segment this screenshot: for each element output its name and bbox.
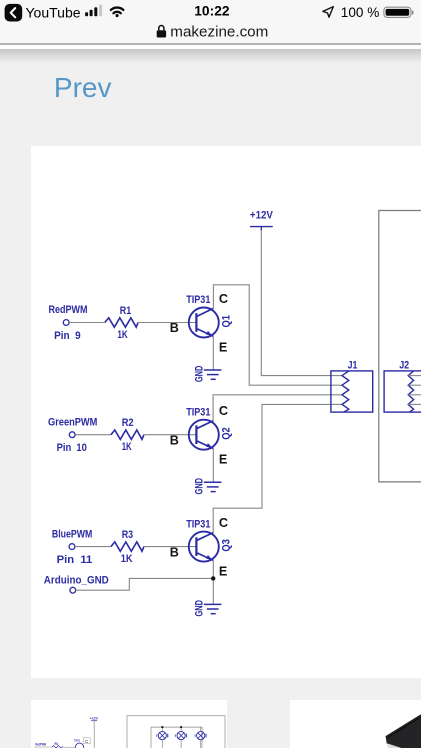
svg-text:Arduino_GND: Arduino_GND [44,575,109,587]
svg-text:RedPWM: RedPWM [35,743,46,747]
bright strip under toolbar [0,45,421,48]
svg-text:GND: GND [194,478,206,495]
svg-text:YouTube: YouTube [26,4,81,20]
thumbnail schematic: +12V pole [90,715,98,748]
svg-text:10:22: 10:22 [194,3,230,18]
svg-text:Q1: Q1 [220,315,232,328]
node RedPWM (input terminal) [49,304,88,342]
svg-text:TIP31: TIP31 [186,518,210,530]
svg-text:Pin 10: Pin 10 [57,442,87,454]
wires J2 pins to right edge [408,376,421,405]
svg-text:E: E [219,565,227,579]
svg-text:BluePWM: BluePWM [52,528,92,540]
photo card [290,700,421,748]
wire emitter of Q2 to ground [212,449,214,483]
status bar: battery icon [384,7,414,17]
node GreenPWM (input terminal) [48,416,97,454]
status bar: location arrow icon [323,7,333,18]
svg-text:Pin 9: Pin 9 [54,330,81,342]
svg-text:C: C [219,292,228,306]
thumbnail schematic: RedPWM input row [34,738,90,748]
wire GreenPWM terminal to resistor R2 [75,434,111,436]
svg-text:TIP31: TIP31 [186,294,210,306]
svg-text:TIP31: TIP31 [186,406,210,418]
status bar: wifi icon [111,8,123,18]
power symbol +12V [250,210,274,231]
thumbnail schematic: LED strip box with three lamps [127,716,225,748]
transistor Q3 TIP31 (NPN) [186,518,232,561]
wire RedPWM terminal to resistor R1 [69,322,105,324]
svg-text:Q3: Q3 [220,539,232,552]
svg-text:Pin 11: Pin 11 [57,554,93,566]
wire Q2 collector to J1 pin 3 [213,395,343,421]
wire resistor R3 to base of Q3 [144,546,197,548]
svg-text:RedPWM: RedPWM [49,304,88,316]
wire emitter of Q1 to ground [212,336,214,370]
connector J1 [331,359,373,412]
wire Q3 collector to J1 pin 4 [213,404,343,532]
toolbar drop shadow [0,49,421,63]
svg-text:C: C [85,739,88,744]
LED strip device box (partially visible, right) [379,211,421,482]
svg-text:J1: J1 [348,359,358,371]
svg-text:R1: R1 [55,742,59,746]
svg-text:makezine.com: makezine.com [170,24,268,40]
svg-text:C: C [219,404,228,418]
wire BluePWM terminal to resistor R3 [75,546,111,548]
svg-text:GND: GND [194,600,206,617]
svg-text:R3: R3 [122,529,133,541]
node Arduino_GND terminal [44,575,109,594]
svg-text:B: B [170,321,179,335]
thumbnail schematic card [31,700,227,748]
svg-text:C: C [219,516,228,530]
wire resistor R2 to base of Q2 [144,434,197,436]
status bar: back-to-YouTube icon [5,4,23,22]
url bar: padlock icon [157,26,166,38]
svg-text:E: E [219,340,227,354]
svg-text:J2: J2 [399,359,409,371]
svg-text:1K: 1K [122,441,132,453]
svg-text:B: B [170,433,179,447]
svg-text:B: B [170,545,179,559]
photo: black enclosure corner [386,714,421,748]
wire emitter of Q3 to ground [212,561,214,605]
svg-text:+12V: +12V [250,210,274,222]
transistor Q2 TIP31 (NPN) [186,406,232,449]
node BluePWM (input terminal) [52,528,92,566]
svg-text:R1: R1 [120,305,131,317]
svg-text:+12V: +12V [90,715,98,720]
transistor Q1 TIP31 (NPN) [186,294,232,337]
junction dot on Q3 emitter net [211,576,215,580]
resistor R3 1K [111,529,144,565]
wire resistor R1 to base of Q1 [138,322,196,324]
status bar: cellular signal bars [85,5,102,17]
svg-text:1K: 1K [121,553,133,565]
resistor R1 1K [105,305,138,341]
wire +12V to J1 pin 1 [261,231,343,376]
wire Arduino_GND to Q3 emitter net [76,578,213,590]
resistor R2 1K [111,417,144,453]
toolbar bottom border [0,43,421,45]
main schematic image card [31,146,421,678]
svg-text:100 %: 100 % [341,5,380,20]
svg-text:TIP31: TIP31 [74,739,80,743]
iOS status + url bar background [0,0,421,44]
wire Q1 collector to J1 pin 2 [213,285,343,385]
svg-text:1K: 1K [117,329,127,341]
svg-text:Q2: Q2 [220,427,232,440]
connector J2 (partially cut off) [384,359,421,412]
svg-text:GND: GND [194,366,206,383]
svg-text:E: E [219,453,227,467]
svg-text:R2: R2 [122,417,134,429]
Prev link [54,72,112,104]
ground symbol GND (below Q2) [194,478,222,495]
ground symbol GND (below Q3) [194,600,222,617]
ground symbol GND (below Q1) [194,366,222,383]
svg-text:GreenPWM: GreenPWM [48,416,97,428]
